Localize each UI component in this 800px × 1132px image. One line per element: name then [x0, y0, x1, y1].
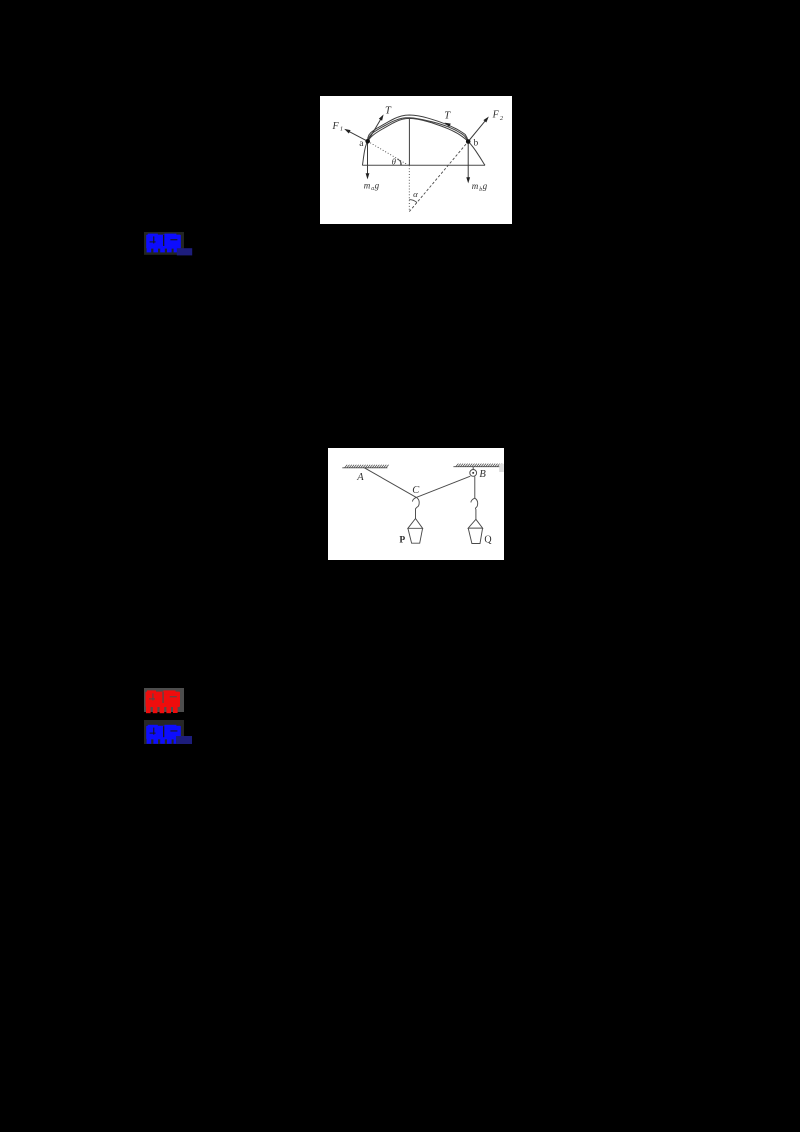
analysis tag 1 navy box: [177, 248, 192, 255]
mass point b: [466, 139, 471, 144]
bucket Q triangle: [468, 519, 482, 528]
svg-text:P: P: [399, 536, 405, 546]
svg-text:m: m: [472, 181, 479, 191]
rope pulley to hook Q: [474, 476, 476, 498]
svg-text:m: m: [364, 180, 371, 190]
answer tag red glyph blob: [146, 690, 181, 713]
svg-text:1: 1: [340, 126, 343, 133]
pulley B wheel: [470, 470, 477, 477]
arch bridge arc: [362, 118, 485, 165]
svg-text:B: B: [479, 469, 486, 480]
analysis tag 1 glyph slits: [150, 235, 178, 246]
left ceiling hatching: [345, 465, 389, 468]
right ceiling hatching: [456, 464, 502, 467]
analysis tag 1 background: [144, 232, 184, 255]
alpha angle arc mark: [409, 200, 417, 203]
svg-text:α: α: [413, 189, 418, 199]
hook C to bucket P link: [416, 507, 417, 518]
mass point a: [365, 139, 370, 144]
bucket P triangle: [408, 519, 423, 529]
tension T arrow at a: [368, 117, 383, 142]
pulley link: [472, 467, 474, 470]
weight arrow m_a g: [367, 141, 369, 177]
weight arrow m_b g: [467, 142, 469, 182]
pulley axle dot: [472, 472, 474, 474]
baseline of arch: [362, 164, 485, 166]
bucket Q body: [468, 528, 482, 543]
hook Q curl: [475, 498, 478, 508]
analysis tag 2 glyph slits: [150, 726, 178, 737]
analysis tag 2 background: [144, 720, 184, 744]
analysis tag 2 navy box: [176, 736, 192, 744]
svg-text:Q: Q: [484, 535, 492, 546]
svg-text:F: F: [492, 109, 500, 120]
rope A to C: [364, 468, 416, 498]
answer tag background: [144, 688, 184, 712]
hook at C curl: [416, 497, 419, 507]
left ceiling line: [342, 467, 387, 469]
center vertical line: [408, 118, 410, 165]
svg-text:A: A: [356, 472, 364, 483]
hook at C tail: [412, 497, 416, 501]
dotted vertical below baseline: [408, 165, 410, 211]
tension T arrowhead on rope right: [444, 121, 451, 127]
figure 2 panel: [328, 448, 504, 560]
hook Q tail: [471, 498, 475, 502]
svg-text:b: b: [474, 138, 479, 148]
hook Q to bucket link: [474, 508, 477, 519]
rope outer line a-b: [368, 115, 469, 142]
dashed line vertex to b: [409, 142, 468, 212]
svg-text:F: F: [332, 121, 340, 132]
analysis tag 1 blue glyph blob: [146, 234, 181, 253]
svg-text:g: g: [483, 181, 488, 191]
svg-text:C: C: [412, 485, 420, 496]
ceiling gray patch: [499, 464, 504, 472]
bucket P body: [408, 528, 423, 543]
svg-text:g: g: [375, 180, 380, 190]
answer tag glyph slits: [149, 692, 177, 703]
figure 1 panel: [320, 96, 512, 224]
force F2 arrow from b: [468, 118, 487, 141]
theta angle tick: [400, 161, 402, 165]
rope inner line a-b: [368, 118, 469, 142]
theta angle arc mark: [397, 159, 401, 165]
rope C to pulley B: [416, 476, 470, 497]
dotted radius line a to center: [368, 141, 409, 165]
svg-text:θ: θ: [392, 156, 397, 166]
analysis tag 2 blue glyph blob: [146, 725, 181, 744]
force F1 arrow from a: [347, 130, 368, 141]
right ceiling line: [453, 466, 500, 468]
